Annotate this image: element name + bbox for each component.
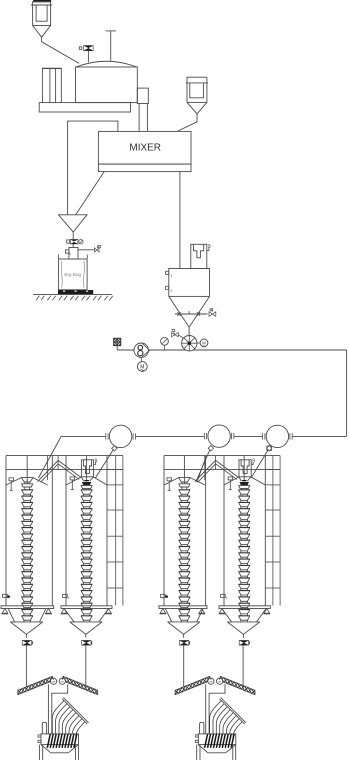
outlet diamond of blower PB1 xyxy=(112,446,117,451)
vent filter on cyclone xyxy=(191,244,211,269)
low-level sensor left silo xyxy=(3,594,10,598)
conveyor drive motor left xyxy=(208,678,214,684)
stair tower between silos xyxy=(48,456,59,480)
screw stack in left silo xyxy=(179,490,190,622)
pallet under big-bag xyxy=(58,290,93,294)
wire xyxy=(72,232,74,239)
discharge funnel of right silo xyxy=(239,456,252,490)
base ring left silo xyxy=(1,606,54,609)
tank T1 xyxy=(76,61,138,102)
big-bag neck xyxy=(65,248,78,260)
level sensor on right silo roof xyxy=(70,477,74,480)
ladder right of silos xyxy=(265,456,280,606)
wire: left silo valve to conveyor xyxy=(25,645,27,687)
roof slopes of right silo xyxy=(66,477,107,485)
feed line to machine (left) xyxy=(47,684,49,734)
level sensor on right silo roof xyxy=(228,477,232,480)
wire xyxy=(25,634,27,637)
vent filter on right silo xyxy=(81,460,93,477)
roof slopes of right silo xyxy=(224,477,265,485)
svg-text:9: 9 xyxy=(208,244,211,250)
valve V2 (big-bag filling head) xyxy=(67,239,83,244)
control valve V6 xyxy=(172,329,184,338)
pressure gauge xyxy=(161,337,169,350)
roof slopes and inlet funnel of left silo xyxy=(164,456,205,490)
conveyor drive motor right xyxy=(59,678,65,684)
funnel F1 above big-bag xyxy=(59,215,88,232)
duct: platform to big-bag funnel xyxy=(68,121,118,215)
crossover chute between silos xyxy=(38,460,82,482)
discharge cone left silo xyxy=(165,609,203,635)
ground with hatching xyxy=(33,295,113,301)
crossover chute between silos xyxy=(195,460,239,482)
vent filter on right silo xyxy=(239,460,251,477)
roots blower B1 xyxy=(134,343,150,357)
pipe segment between PB2 and PB3 xyxy=(234,435,262,437)
base ring right silo xyxy=(61,606,112,609)
motor of blower B1 xyxy=(137,357,147,371)
svg-text:1: 1 xyxy=(226,596,228,600)
slide gate on cyclone cone xyxy=(175,311,208,316)
svg-text:MIXER: MIXER xyxy=(129,142,161,153)
conveyor drive motor left xyxy=(51,678,57,684)
pipe segment between PB1 and PB2 xyxy=(136,435,204,437)
pipe segment to blower PB3 xyxy=(293,435,347,437)
big-bag xyxy=(58,255,87,290)
screw stack in right silo xyxy=(239,490,250,622)
silo building frame xyxy=(164,456,280,606)
oil bottle on machine xyxy=(42,722,46,734)
wire: mixer outlet to cyclone xyxy=(179,172,181,269)
spinning machine body xyxy=(38,734,79,745)
outlet diamond of blower PB2 xyxy=(208,446,213,451)
collection funnel of machine xyxy=(197,745,236,760)
mixer M1 xyxy=(98,131,191,171)
air blower PB3 xyxy=(263,425,293,450)
support feet xyxy=(2,609,112,614)
wire: mixer outlet to funnel F1 xyxy=(76,172,105,215)
svg-text:Big-Bag: Big-Bag xyxy=(64,272,81,278)
silo building frame xyxy=(6,456,123,606)
oil bottle on machine xyxy=(200,722,204,734)
svg-text:9: 9 xyxy=(95,459,98,465)
wire xyxy=(72,244,74,247)
base ring left silo xyxy=(159,606,207,609)
support feet xyxy=(160,609,271,614)
motor of rotary valve xyxy=(197,339,208,347)
ladder right of silos xyxy=(107,456,123,606)
svg-text:1: 1 xyxy=(170,274,172,278)
svg-text:M: M xyxy=(202,341,206,346)
level sensor on left silo roof xyxy=(9,478,13,481)
wire xyxy=(183,634,185,637)
inline filter (crossed box) xyxy=(114,338,121,345)
wire: right silo valve to conveyor xyxy=(85,645,87,686)
conveying pipe down right side xyxy=(346,350,348,436)
platform under tank xyxy=(39,103,130,112)
feed line to machine (right) xyxy=(209,684,225,734)
thread sheet inside machine xyxy=(47,734,77,748)
level probe on tank T1 xyxy=(106,31,116,61)
valve V1 on tank dome xyxy=(79,45,93,62)
wire: cyclone apex to rotary valve xyxy=(188,327,190,335)
thread sheet inside machine xyxy=(205,734,235,748)
air blower PB2 xyxy=(204,425,234,447)
wire: PB2 to silo 3 funnel xyxy=(196,450,210,483)
vent line to valve V3 xyxy=(78,249,94,251)
inclined screw conveyor right xyxy=(63,676,98,694)
conveyor drive motor right xyxy=(217,678,223,684)
discharge valve right silo xyxy=(81,640,91,645)
stair tower between silos xyxy=(205,456,216,480)
wire: left silo valve to conveyor xyxy=(183,645,185,687)
base ring right silo xyxy=(219,606,270,609)
valve V5 on slide gate line xyxy=(209,309,216,317)
wire xyxy=(85,634,87,637)
svg-text:9: 9 xyxy=(252,459,255,465)
svg-text:1: 1 xyxy=(69,252,71,256)
hopper H2 (additive feeder) xyxy=(186,77,208,114)
wire: PB1 to silo 2 filter xyxy=(95,450,113,478)
discharge cone right silo xyxy=(222,609,266,635)
collection funnel of machine xyxy=(39,745,78,760)
discharge cone left silo xyxy=(8,609,46,635)
air blower PB1 xyxy=(106,425,136,447)
thread guide bar xyxy=(62,698,88,724)
discharge cone right silo xyxy=(64,609,108,635)
roof slopes and inlet funnel of left silo xyxy=(6,456,48,490)
filter bank beside tank xyxy=(42,68,62,102)
fiber threads from guide bar xyxy=(52,701,85,737)
thread guide bar xyxy=(220,698,246,724)
discharge valve left silo xyxy=(22,640,32,645)
wire: hopper H2 to mixer xyxy=(177,114,197,132)
feed line to machine (right) xyxy=(52,684,68,734)
outlet diamond of blower PB3 xyxy=(267,446,272,451)
inclined screw conveyor left xyxy=(175,676,210,694)
svg-text:1: 1 xyxy=(170,289,172,293)
discharge valve left silo xyxy=(179,640,189,645)
conveying pipe (header) xyxy=(117,349,346,351)
screw stack in right silo xyxy=(81,490,92,622)
cyclone receiver body xyxy=(166,269,210,328)
duct: outlet box to mixer xyxy=(139,104,147,132)
low-level sensor right silo xyxy=(63,594,70,600)
fiber threads from guide bar xyxy=(210,701,243,737)
hopper H1 (bag dump bin) xyxy=(31,0,52,37)
wire: hopper H1 outlet to tank T1 xyxy=(42,37,79,63)
outlet box on tank right side xyxy=(137,88,148,103)
pipe segment to silo 1 xyxy=(38,436,105,478)
valve V3 xyxy=(95,245,101,252)
rotary valve under cyclone xyxy=(182,336,197,351)
inclined screw conveyor left xyxy=(18,676,53,694)
wire xyxy=(242,634,244,637)
wire: PB3 to silo 4 filter xyxy=(252,450,269,477)
screw stack in left silo xyxy=(22,490,33,622)
feed line to machine (left) xyxy=(205,684,207,734)
inclined screw conveyor right xyxy=(220,676,255,694)
discharge funnel of right silo xyxy=(81,456,94,490)
spinning machine body xyxy=(195,734,236,745)
wire xyxy=(116,346,118,350)
low-level sensor right silo xyxy=(221,594,228,600)
level sensor on left silo roof xyxy=(167,478,171,481)
discharge valve right silo xyxy=(239,640,249,645)
low-level sensor left silo xyxy=(161,594,168,598)
wire: right silo valve to conveyor xyxy=(242,645,244,686)
svg-text:1: 1 xyxy=(68,596,70,600)
